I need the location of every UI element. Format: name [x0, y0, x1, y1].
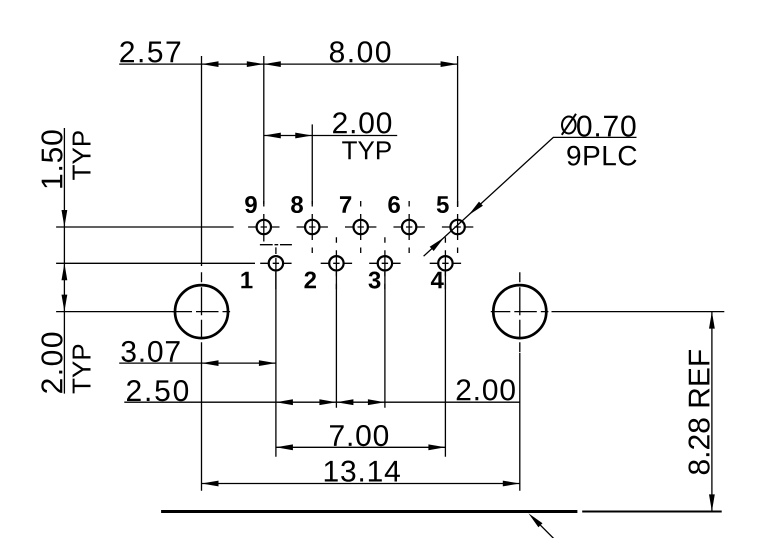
extension line left hole vertical lower: [201, 348, 203, 491]
dimension 7.00 line: [276, 444, 446, 450]
dimension text 2.50: [127, 380, 188, 401]
extension line pin 5 up: [457, 56, 459, 207]
dimension text 13.14: [325, 461, 400, 482]
leader diameter 0.70: [424, 137, 637, 256]
dimension text 3.07: [121, 341, 179, 362]
pin 6 hole: [393, 201, 424, 253]
extension line pin 2 down: [335, 272, 337, 408]
centerline vertical right hole: [519, 272, 521, 353]
mounting hole left: [175, 285, 228, 338]
pin 3 hole: [369, 237, 400, 289]
extension line hole centerline left: [56, 311, 176, 313]
extension line left hole vertical upper: [201, 56, 203, 266]
dimension text 2.00 lower right: [457, 379, 515, 400]
extension line pin 4 down: [444, 272, 446, 457]
extension line pin 8 up: [311, 124, 313, 204]
dimension text 2.57: [120, 41, 180, 62]
pin label 5: [437, 196, 449, 213]
dimension 2.57 and 8.00 line: [119, 61, 457, 67]
pin label 4: [431, 272, 444, 289]
dimension text 7.00: [330, 425, 388, 446]
dimension text 2.00 TYP: [333, 112, 391, 159]
dimension text 8.28 REF rotated: [688, 350, 709, 474]
dimension text 8.00: [330, 41, 390, 62]
pin 9 hole: [248, 201, 279, 242]
pin label 6: [388, 196, 400, 213]
centerline between rows above pin 1: [260, 244, 292, 246]
board edge leader arrow: [528, 513, 554, 538]
pin 8 hole: [297, 201, 328, 253]
pin 7 hole: [345, 201, 376, 253]
pin label 7: [340, 196, 351, 213]
pin label 1: [241, 272, 252, 289]
centerline horizontal right hole: [491, 311, 549, 313]
centerline vertical left hole: [201, 272, 203, 348]
extension line pin 9 up: [263, 56, 265, 204]
centerline horizontal left hole: [173, 311, 231, 313]
leader text diameter 0.70 9PLC: [562, 114, 637, 166]
pin label 8: [291, 196, 303, 213]
dimension text 1.50 TYP rotated: [41, 130, 90, 187]
extension line pin row bottom left: [56, 262, 255, 264]
pin label 2: [304, 272, 316, 289]
extension line pin row top left: [56, 226, 234, 228]
board edge line: [161, 510, 722, 513]
mounting hole right: [493, 285, 546, 338]
dimension 1.50 TYP and 2.00 TYP vertical line: [62, 128, 68, 394]
dimension text 2.00 TYP rotated: [41, 333, 90, 394]
extension line pin 1 down: [275, 272, 277, 457]
extension line pin 3 down: [384, 272, 386, 408]
dimension 2.00 TYP line: [264, 133, 397, 139]
dimension 2.50 and 2.00 line: [124, 399, 520, 405]
extension line hole centerline right: [552, 311, 725, 313]
pin 4 hole: [430, 237, 461, 289]
pin label 3: [368, 272, 380, 289]
dimension 13.14 line: [202, 481, 520, 487]
dimension 3.07 line: [119, 360, 276, 366]
dimension 8.28 REF vertical line: [709, 312, 715, 512]
pin 1 hole: [260, 247, 291, 289]
pin label 9: [245, 196, 257, 213]
extension line right hole vertical lower: [519, 353, 521, 491]
pin 5 hole: [442, 201, 473, 253]
pin 2 hole: [321, 237, 352, 289]
